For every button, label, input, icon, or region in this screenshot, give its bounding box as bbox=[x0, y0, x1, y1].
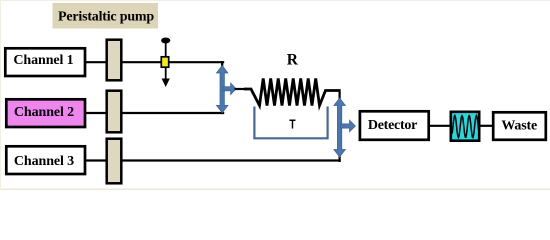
signal waveform bbox=[452, 116, 478, 138]
reaction coil R bbox=[244, 79, 341, 106]
svg-text:Peristaltic pump: Peristaltic pump bbox=[58, 10, 154, 25]
svg-text:R: R bbox=[287, 52, 299, 69]
wire channel 1 pump to junction 1 bbox=[121, 61, 224, 63]
svg-text:Channel 2: Channel 2 bbox=[14, 105, 74, 120]
wire junction 1 vertical bbox=[221, 61, 223, 114]
injection valve bbox=[161, 38, 170, 44]
channel 1 reservoir bbox=[5, 48, 85, 76]
svg-text:Channel 1: Channel 1 bbox=[13, 53, 73, 68]
svg-text:Waste: Waste bbox=[501, 119, 537, 134]
channel 3 reservoir bbox=[6, 146, 85, 174]
wire channel 3 to pump bbox=[85, 159, 106, 161]
pump tube segment 3 bbox=[107, 139, 122, 184]
channel 2 reservoir bbox=[6, 99, 85, 127]
peristaltic pump label bbox=[53, 3, 159, 29]
pump tube segment 2 bbox=[107, 91, 122, 133]
detector box bbox=[360, 111, 429, 140]
thermostat bracket bbox=[254, 107, 327, 139]
wire junction 1 to reaction coil bbox=[235, 88, 248, 90]
wire channel 3 to junction 2 bbox=[121, 159, 341, 161]
flow arrow junction 2 vertical bbox=[334, 98, 346, 157]
svg-text:Channel 3: Channel 3 bbox=[14, 154, 74, 169]
wire channel 2 to pump bbox=[85, 112, 106, 114]
flow cell signal unit bbox=[451, 112, 479, 141]
wire detector to flow cell bbox=[430, 125, 451, 127]
flow arrow junction 1 vertical bbox=[216, 66, 228, 113]
wire channel 2 pump to junction 1 bbox=[121, 112, 224, 114]
wire channel 1 to pump bbox=[85, 61, 106, 63]
pump tube segment 1 bbox=[107, 40, 122, 81]
svg-text:Detector: Detector bbox=[368, 118, 417, 133]
flow arrow junction 2 output bbox=[341, 120, 356, 132]
flow arrow junction 1 output bbox=[223, 83, 236, 95]
svg-text:T: T bbox=[289, 118, 295, 132]
wire coil to junction 2 bbox=[339, 89, 341, 162]
waste box bbox=[493, 112, 546, 140]
wire flow cell to waste bbox=[480, 125, 493, 127]
